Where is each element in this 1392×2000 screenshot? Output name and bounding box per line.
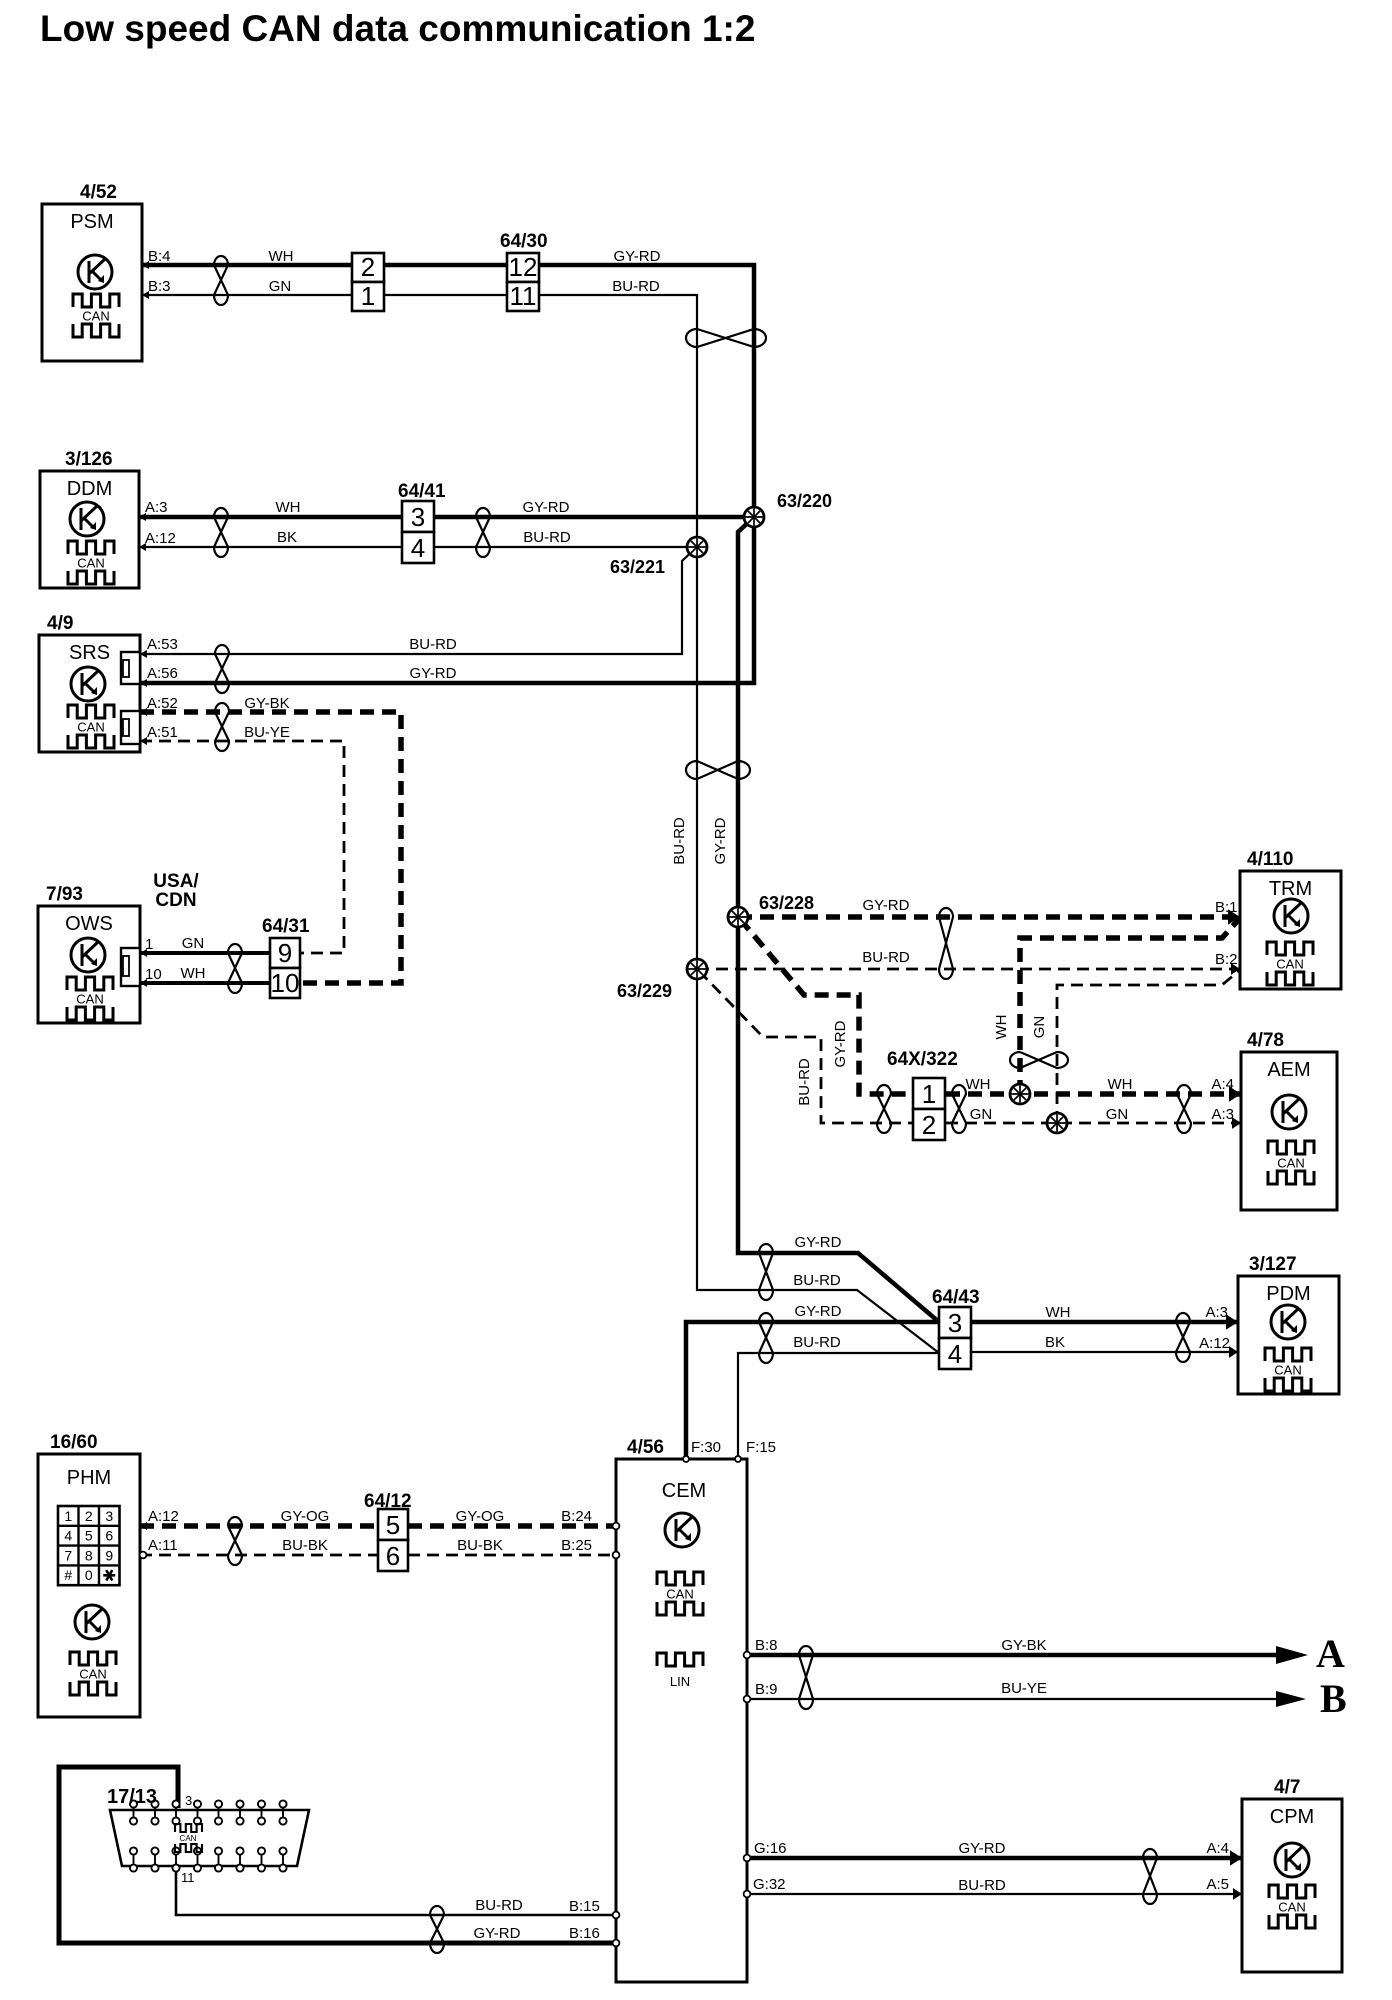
svg-text:8: 8 [85, 1547, 93, 1563]
svg-text:CAN: CAN [76, 992, 103, 1007]
wire 63/229 BU-RD dashed branch to 64X/322 pin 2 [699, 971, 913, 1123]
svg-text:GN: GN [970, 1106, 993, 1123]
svg-text:WH: WH [1108, 1076, 1133, 1093]
CEM pin B:9 [744, 1681, 778, 1702]
wire CEM B:8 GY-BK thick to arrow A [747, 1653, 1280, 1658]
wire PSM B:4 WH/GY-RD thick: right, down x754, to SRS A:56 [140, 265, 754, 683]
svg-text:5: 5 [85, 1528, 93, 1544]
wire 63/228 GY-RD thick dashed to TRM B:1 [738, 914, 1240, 920]
svg-text:TRM: TRM [1269, 878, 1312, 900]
twisted-pair symbol TRM pair [939, 908, 953, 979]
twisted-pair symbol 64/43 upper pair [759, 1244, 773, 1300]
svg-text:#: # [64, 1567, 72, 1583]
svg-text:64/31: 64/31 [262, 916, 310, 937]
twisted-pair symbol 64X right [952, 1085, 966, 1133]
node 63/229 label [617, 981, 672, 1001]
AEM pin A:4 [1211, 1076, 1241, 1102]
CPM pin A:5 [1206, 1876, 1242, 1900]
svg-text:BU-RD: BU-RD [409, 636, 457, 653]
svg-text:A:52: A:52 [147, 695, 178, 712]
svg-text:G:16: G:16 [754, 1840, 787, 1857]
svg-text:3: 3 [185, 1793, 192, 1808]
wire CEM F:15 BU-RD thin to 64/43 pin 4 [738, 1353, 939, 1459]
label BK (64/43 to PDM) [1045, 1334, 1065, 1351]
svg-text:A:5: A:5 [1206, 1876, 1229, 1893]
svg-text:CAN: CAN [180, 1834, 197, 1843]
PSM pin B:4 [142, 248, 171, 269]
svg-text:GN: GN [1031, 1016, 1048, 1039]
node 63/229 [687, 959, 707, 979]
svg-text:F:15: F:15 [746, 1439, 776, 1456]
svg-text:4/7: 4/7 [1274, 1777, 1300, 1798]
svg-text:6: 6 [386, 1541, 400, 1571]
label BU-RD (SRS A:53) [409, 636, 457, 653]
label BU-RD (CEM G:32) [958, 1877, 1006, 1894]
CEM pin F:30 [683, 1439, 721, 1462]
wire branch 63/221 to SRS A:53 [140, 547, 697, 654]
svg-text:A:3: A:3 [1205, 1304, 1228, 1321]
svg-text:CPM: CPM [1270, 1806, 1314, 1828]
label BU-RD (to 64/43 upper) [793, 1272, 841, 1289]
arrowhead A [1276, 1646, 1308, 1664]
svg-text:63/229: 63/229 [617, 981, 672, 1001]
svg-text:B:9: B:9 [755, 1681, 778, 1698]
svg-text:GY-BK: GY-BK [1001, 1637, 1046, 1654]
connector 64/41 pins 3/4 [398, 481, 446, 563]
CEM pin G:16 [744, 1840, 787, 1861]
svg-text:A:53: A:53 [147, 636, 178, 653]
node 63/221 label [610, 557, 665, 577]
label GN (OWS 1) [182, 935, 205, 952]
svg-text:BU-RD: BU-RD [793, 1272, 841, 1289]
svg-text:7/93: 7/93 [46, 884, 83, 905]
PDM pin A:3 [1205, 1304, 1238, 1330]
svg-text:A:12: A:12 [1199, 1335, 1230, 1352]
svg-text:BK: BK [1045, 1334, 1065, 1351]
svg-text:CAN: CAN [1276, 957, 1303, 972]
svg-text:4: 4 [948, 1339, 962, 1369]
svg-text:CAN: CAN [1277, 1156, 1304, 1171]
component PSM 4/52 [42, 182, 142, 361]
svg-text:63/220: 63/220 [777, 491, 832, 511]
label BU-RD top [612, 278, 660, 295]
SRS pin A:53 [140, 636, 178, 658]
svg-text:B:3: B:3 [148, 278, 171, 295]
svg-text:GY-RD: GY-RD [474, 1925, 521, 1942]
svg-text:Low speed CAN data communicati: Low speed CAN data communication 1:2 [40, 8, 755, 49]
wire OWS pin10 WH thick to 64/31 pin 10 [140, 981, 270, 985]
twisted-pair symbol 64/43 lower pair [759, 1313, 773, 1363]
svg-text:B:1: B:1 [1215, 899, 1238, 916]
svg-text:LIN: LIN [670, 1674, 690, 1689]
twisted-pair symbol 64X left [877, 1085, 891, 1133]
svg-text:10: 10 [271, 968, 300, 998]
svg-text:GY-RD: GY-RD [523, 499, 570, 516]
label BU-BK (to CEM) [457, 1537, 503, 1554]
label GY-RD (SRS A:56) [410, 665, 457, 682]
label BU-YE (CEM B:9) [1001, 1680, 1047, 1697]
svg-text:CDN: CDN [155, 890, 196, 911]
title [40, 8, 755, 49]
svg-text:GY-RD: GY-RD [795, 1303, 842, 1320]
label WH (64X out) [966, 1076, 991, 1093]
svg-text:1: 1 [64, 1508, 72, 1524]
svg-text:4/78: 4/78 [1247, 1030, 1284, 1051]
label GY-RD (CEM F:30) [795, 1303, 842, 1320]
svg-text:64X/322: 64X/322 [887, 1049, 958, 1070]
component AEM 4/78 [1241, 1030, 1337, 1210]
twisted-pair symbol vertical pair top [686, 329, 766, 347]
label GY-RD (DDM) [523, 499, 570, 516]
svg-text:4/52: 4/52 [80, 182, 117, 203]
svg-text:BK: BK [277, 529, 297, 546]
svg-text:BU-RD: BU-RD [612, 278, 660, 295]
label GN (PSM B:3) [269, 278, 292, 295]
label WH rotated [993, 1015, 1010, 1040]
svg-text:WH: WH [181, 965, 206, 982]
label BU-RD (DDM) [523, 529, 571, 546]
svg-text:A:51: A:51 [147, 724, 178, 741]
component PHM 16/60 [38, 1432, 140, 1717]
svg-text:A:3: A:3 [145, 499, 168, 516]
svg-text:B:24: B:24 [561, 1508, 592, 1525]
svg-text:OWS: OWS [65, 913, 113, 935]
wire CEM F:30 GY-RD thick to 64/43 pin 3 [686, 1322, 939, 1459]
wire CEM B:9 BU-YE thin to arrow B [747, 1698, 1280, 1700]
svg-text:GY-RD: GY-RD [712, 817, 729, 864]
svg-text:4/110: 4/110 [1247, 849, 1294, 870]
wire 64X/322 pin1 WH thick dashed to AEM A:4 [946, 1091, 1241, 1097]
component CEM 4/56 [616, 1437, 747, 1982]
svg-text:WH: WH [1046, 1304, 1071, 1321]
SRS pin A:56 [140, 665, 178, 687]
node GN junction at AEM wire [1047, 1113, 1067, 1133]
label BU-RD (B:15) [475, 1897, 523, 1914]
wire SRS A:51 BU-YE thin dashed to 64/31 pin 9 [140, 741, 344, 953]
component OWS 7/93 [38, 884, 140, 1023]
svg-text:DDM: DDM [67, 478, 113, 500]
svg-text:CEM: CEM [662, 1480, 706, 1502]
label GY-RD top [614, 248, 661, 265]
twisted-pair symbol CEM A/B [799, 1646, 813, 1709]
svg-text:A:12: A:12 [145, 530, 176, 547]
svg-text:1: 1 [361, 281, 375, 311]
svg-text:SRS: SRS [69, 642, 110, 664]
svg-text:GY-RD: GY-RD [863, 897, 910, 914]
wire DDM A:12 BK/BU-RD thin to node 63/221 [139, 546, 697, 548]
wire PHM A:11 BU-BK thin dashed to 64/12 pin 6 [140, 1554, 378, 1557]
svg-text:F:30: F:30 [691, 1439, 721, 1456]
wire WH dashed vertical node to TRM B:1 [1020, 918, 1240, 1094]
wire 64/12 pin6 BU-BK dashed to CEM B:25 [408, 1554, 616, 1557]
svg-text:PDM: PDM [1266, 1283, 1310, 1305]
label BU-RD (CEM F:15) [793, 1334, 841, 1351]
twisted-pair symbol PHM [228, 1517, 242, 1565]
label GY-BK (SRS A:52) [244, 695, 289, 712]
PHM pin A:12 [140, 1508, 179, 1530]
svg-text:GN: GN [269, 278, 292, 295]
twisted-pair symbol PSM [214, 256, 228, 305]
svg-text:17/13: 17/13 [107, 1786, 157, 1808]
svg-text:64/12: 64/12 [364, 1491, 412, 1512]
svg-text:3/127: 3/127 [1249, 1254, 1297, 1275]
label BK (DDM) [277, 529, 297, 546]
arrowhead B [1276, 1691, 1306, 1707]
connector 64/12 pins 5/6 [364, 1491, 412, 1571]
svg-text:BU-RD: BU-RD [862, 949, 910, 966]
wire SRS A:52 GY-BK thick dashed to 64/31 pin 10 [140, 712, 401, 983]
node 63/221 [687, 537, 707, 557]
label GY-RD rotated (64X branch) [832, 1020, 849, 1067]
svg-text:B:25: B:25 [561, 1537, 592, 1554]
svg-text:BU-YE: BU-YE [244, 724, 290, 741]
wire CEM B:16 GY-RD thick loop to 17/13 pin 3 [59, 1767, 616, 1943]
label GY-OG (PHM) [281, 1508, 330, 1525]
svg-text:A:3: A:3 [1211, 1106, 1234, 1123]
svg-text:3: 3 [105, 1508, 113, 1524]
AEM pin A:3 [1211, 1106, 1241, 1129]
component PDM 3/127 [1238, 1254, 1339, 1394]
svg-text:GY-RD: GY-RD [832, 1020, 849, 1067]
svg-text:1: 1 [922, 1079, 936, 1109]
label GY-OG (to CEM) [456, 1508, 505, 1525]
component DDM 3/126 [40, 449, 139, 588]
node 63/228 label [759, 893, 814, 913]
CPM pin A:4 [1206, 1840, 1242, 1866]
svg-text:3: 3 [948, 1308, 962, 1338]
svg-text:A: A [1316, 1631, 1345, 1676]
svg-text:B:16: B:16 [569, 1925, 600, 1942]
label GY-RD (63/228 to TRM) [863, 897, 910, 914]
svg-text:GY-OG: GY-OG [456, 1508, 505, 1525]
svg-text:WH: WH [993, 1015, 1010, 1040]
wire CEM G:32 BU-RD thin to CPM A:5 [747, 1893, 1242, 1895]
svg-text:2: 2 [85, 1508, 93, 1524]
TRM pin B:1 [1215, 899, 1240, 925]
svg-text:PSM: PSM [70, 211, 113, 233]
svg-text:3: 3 [411, 502, 425, 532]
label GY-RD rotated vertical [712, 817, 729, 864]
CEM pin G:32 [744, 1876, 786, 1897]
svg-text:PHM: PHM [67, 1467, 111, 1489]
svg-text:63/221: 63/221 [610, 557, 665, 577]
label B arrow [1320, 1676, 1347, 1721]
label A arrow [1316, 1631, 1345, 1676]
node 63/220 [744, 507, 764, 527]
twisted-pair symbol AEM [1177, 1085, 1191, 1133]
SRS pin A:51 [140, 724, 178, 745]
label USA/CDN [153, 871, 199, 911]
component CPM 4/7 [1242, 1777, 1342, 1972]
svg-text:BU-RD: BU-RD [671, 817, 688, 865]
connector 64X/322 pins 1/2 [887, 1049, 958, 1140]
svg-text:12: 12 [509, 252, 538, 282]
svg-text:B: B [1320, 1676, 1347, 1721]
svg-text:11: 11 [510, 281, 537, 311]
svg-text:2: 2 [922, 1110, 936, 1140]
svg-text:5: 5 [386, 1510, 400, 1540]
svg-text:BU-RD: BU-RD [958, 1877, 1006, 1894]
svg-text:B:2: B:2 [1215, 951, 1238, 968]
svg-text:GY-RD: GY-RD [795, 1234, 842, 1251]
svg-text:A:4: A:4 [1211, 1076, 1234, 1093]
svg-text:2: 2 [361, 252, 375, 282]
twisted-pair symbol 17/13 [430, 1906, 444, 1953]
svg-text:CAN: CAN [79, 1667, 106, 1682]
connector 64/43 pins 3/4 [932, 1287, 980, 1369]
label WH (DDM) [276, 499, 301, 516]
wire OWS pin1 GN thick to 64/31 pin 9 [140, 951, 270, 955]
CEM pin B:16 [569, 1925, 619, 1946]
svg-text:A:11: A:11 [148, 1537, 178, 1554]
svg-text:B:4: B:4 [148, 248, 171, 265]
label WH (OWS 10) [181, 965, 206, 982]
twisted-pair symbol WH/GN verticals [1010, 1052, 1068, 1068]
twisted-pair symbol vertical pair mid [686, 761, 750, 779]
label GY-RD (to 64/43 upper) [795, 1234, 842, 1251]
wire 64X/322 pin2 GN thin dashed to AEM A:3 [946, 1122, 1241, 1125]
svg-text:CAN: CAN [77, 556, 104, 571]
OWS pin 10 [140, 966, 162, 987]
wire 63/228 GY-RD dashed branch to 64X/322 pin 1 [740, 919, 913, 1094]
wire DDM A:3 WH/GY-RD thick to node 63/220 [139, 515, 754, 520]
CEM pin B:25 [561, 1537, 619, 1558]
svg-text:GY-RD: GY-RD [410, 665, 457, 682]
PDM pin A:12 [1199, 1335, 1238, 1358]
wire CEM G:16 GY-RD thick to CPM A:4 [747, 1856, 1242, 1861]
CEM pin B:24 [561, 1508, 619, 1529]
svg-text:CAN: CAN [77, 720, 104, 735]
wire 63/229 BU-RD thin dashed to TRM B:2 [697, 968, 1240, 971]
svg-text:GN: GN [1106, 1106, 1129, 1123]
svg-text:G:32: G:32 [753, 1876, 786, 1893]
svg-text:GY-BK: GY-BK [244, 695, 289, 712]
label BU-BK (PHM) [282, 1537, 328, 1554]
svg-text:WH: WH [966, 1076, 991, 1093]
svg-text:BU-YE: BU-YE [1001, 1680, 1047, 1697]
svg-text:AEM: AEM [1267, 1059, 1310, 1081]
svg-text:CAN: CAN [82, 309, 109, 324]
OWS pin 1 [140, 936, 153, 957]
svg-text:9: 9 [278, 938, 292, 968]
svg-text:CAN: CAN [1274, 1363, 1301, 1378]
svg-text:64/43: 64/43 [932, 1287, 980, 1308]
twisted-pair symbol CPM [1143, 1849, 1157, 1904]
svg-text:GY-OG: GY-OG [281, 1508, 330, 1525]
twisted-pair symbol SRS lower [215, 703, 229, 751]
svg-text:4/56: 4/56 [627, 1437, 664, 1458]
label BU-RD rotated (64X branch) [796, 1058, 813, 1106]
svg-text:CAN: CAN [666, 1587, 693, 1602]
wire 64/12 pin5 GY-OG dashed to CEM B:24 [408, 1523, 616, 1529]
svg-text:USA/: USA/ [153, 871, 199, 892]
svg-text:GN: GN [182, 935, 205, 952]
label GY-RD (CEM G:16) [959, 1840, 1006, 1857]
twisted-pair symbol DDM [214, 508, 228, 557]
label WH (64/43 to PDM) [1046, 1304, 1071, 1321]
component 17/13 diagnostic connector [107, 1786, 309, 1885]
TRM pin B:2 [1215, 951, 1240, 975]
svg-text:16/60: 16/60 [50, 1432, 98, 1453]
label GN (64X out) [970, 1106, 993, 1123]
label BU-RD rotated vertical [671, 817, 688, 865]
PSM pin B:3 [142, 278, 171, 299]
CEM pin B:15 [569, 1898, 619, 1918]
svg-text:4: 4 [64, 1528, 72, 1544]
svg-text:9: 9 [105, 1547, 113, 1563]
connector 64/31 pins 9/10 [262, 916, 310, 998]
svg-text:A:4: A:4 [1206, 1840, 1229, 1857]
PHM pin A:11 [140, 1537, 178, 1558]
label WH (PSM B:4) [269, 248, 294, 265]
wire branch 63/220 GY-RD vertical to 64/43 pin 3 [738, 517, 939, 1322]
twisted-pair symbol SRS upper [215, 645, 229, 693]
svg-text:1: 1 [145, 936, 153, 953]
component TRM 4/110 [1240, 849, 1341, 989]
label GY-RD (B:16) [474, 1925, 521, 1942]
svg-text:GY-RD: GY-RD [614, 248, 661, 265]
svg-text:BU-RD: BU-RD [796, 1058, 813, 1106]
connector 64/30 pins 12/11 [500, 231, 548, 311]
svg-text:A:12: A:12 [148, 1508, 179, 1525]
label GY-BK (CEM B:8) [1001, 1637, 1046, 1654]
svg-text:WH: WH [269, 248, 294, 265]
wire 64/43 pin3 WH thick to PDM A:3 [971, 1320, 1238, 1325]
svg-text:11: 11 [181, 1870, 195, 1885]
svg-text:6: 6 [105, 1528, 113, 1544]
label GN (to AEM) [1106, 1106, 1129, 1123]
svg-text:64/30: 64/30 [500, 231, 548, 252]
svg-text:4/9: 4/9 [47, 613, 73, 634]
wire GN dashed vertical node to TRM B:2 [1057, 970, 1240, 1123]
svg-text:4: 4 [411, 533, 425, 563]
DDM pin A:12 [139, 530, 176, 551]
svg-text:B:8: B:8 [755, 1637, 778, 1654]
svg-text:64/41: 64/41 [398, 481, 446, 502]
CEM pin B:8 [744, 1637, 778, 1658]
wire BU-RD main vertical continues to 64/43 pin 4 [697, 547, 939, 1353]
wire PSM B:3 GN/BU-RD thin: right, down x697 [142, 295, 697, 547]
svg-text:WH: WH [276, 499, 301, 516]
wire 64/43 pin4 BK thin to PDM A:12 [971, 1351, 1238, 1353]
component SRS 4/9 [39, 613, 140, 752]
label GN rotated [1031, 1016, 1048, 1039]
twisted-pair symbol OWS [228, 944, 242, 993]
svg-text:BU-BK: BU-BK [282, 1537, 328, 1554]
svg-text:GY-RD: GY-RD [959, 1840, 1006, 1857]
twisted-pair symbol PDM [1176, 1313, 1190, 1362]
svg-text:BU-RD: BU-RD [523, 529, 571, 546]
label WH (to AEM) [1108, 1076, 1133, 1093]
label BU-YE (SRS A:51) [244, 724, 290, 741]
twisted-pair symbol after 64/41 [476, 508, 490, 557]
svg-text:B:15: B:15 [569, 1898, 600, 1915]
svg-text:CAN: CAN [1278, 1900, 1305, 1915]
DDM pin A:3 [139, 499, 168, 521]
wire PHM A:12 GY-OG thick dashed to 64/12 pin 5 [140, 1523, 378, 1529]
node 63/220 label [777, 491, 832, 511]
SRS pin A:52 [140, 695, 178, 716]
svg-text:BU-RD: BU-RD [475, 1897, 523, 1914]
wire CEM B:15 BU-RD thin to 17/13 pin 11 [176, 1868, 616, 1915]
svg-text:3/126: 3/126 [65, 449, 113, 470]
svg-text:BU-RD: BU-RD [793, 1334, 841, 1351]
svg-text:63/228: 63/228 [759, 893, 814, 913]
svg-text:A:56: A:56 [147, 665, 178, 682]
CEM pin F:15 [735, 1439, 776, 1462]
svg-text:7: 7 [64, 1547, 72, 1563]
label BU-RD (63/229 to TRM) [862, 949, 910, 966]
